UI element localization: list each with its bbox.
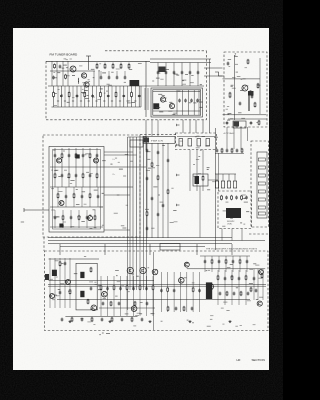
transistor Q6 [242, 85, 248, 91]
capacitor C6 [138, 94, 141, 98]
wire [104, 194, 130, 196]
wire [134, 86, 136, 107]
wire [218, 256, 220, 272]
resistor R53 [192, 287, 194, 293]
wire drop [221, 229, 223, 241]
wire [173, 63, 175, 87]
wire dashed box edge extension [140, 134, 176, 136]
wire [59, 258, 61, 308]
wire [89, 148, 91, 167]
wire [138, 86, 140, 107]
capacitor C48 [157, 151, 160, 155]
wire [239, 256, 241, 272]
wire [217, 270, 219, 305]
discriminator block [193, 174, 208, 186]
transistor Q15 [152, 269, 158, 275]
label speckle [53, 63, 141, 86]
resistor R40 [157, 175, 159, 181]
wire [160, 272, 162, 312]
wire [84, 86, 86, 107]
transistor Q23 [259, 270, 264, 275]
capacitor C78 [218, 260, 221, 264]
wire [167, 272, 169, 312]
regulator cell [258, 198, 265, 201]
wire [50, 226, 103, 228]
capacitor C32 [235, 196, 238, 200]
oscillator transformer (shielded) [248, 91, 254, 96]
wire [78, 210, 80, 228]
wire [228, 118, 267, 120]
node connector arrow [177, 174, 180, 176]
wire [73, 187, 75, 207]
capacitor C74 [247, 292, 250, 296]
resistor R68 [71, 317, 73, 322]
wire [103, 86, 105, 107]
wire drop [199, 186, 201, 238]
regulator cell [258, 182, 265, 185]
lead tick [95, 100, 97, 102]
capacitor C14 [165, 71, 168, 75]
regulator cell [258, 212, 265, 215]
wire [199, 272, 201, 312]
wire drop [226, 127, 228, 149]
transistor Q1 [70, 66, 76, 72]
resistor R6 [131, 91, 133, 97]
capacitor C27 [250, 121, 253, 125]
resistor R35 [89, 193, 91, 199]
wire [54, 148, 56, 167]
resistor R2 [68, 91, 70, 97]
ceramic filter [179, 139, 183, 147]
wire drop [56, 61, 58, 86]
wire [107, 86, 109, 107]
resistor R56 [245, 275, 247, 281]
transistor Q21 [257, 301, 262, 306]
capacitor C25 [227, 62, 230, 66]
connector J3 [233, 121, 246, 128]
ground [228, 320, 231, 323]
capacitor C53 [167, 159, 170, 163]
diode row [221, 181, 224, 188]
wire [88, 86, 90, 107]
ceramic filter [206, 139, 210, 147]
wire [223, 78, 260, 80]
node FM antenna input [86, 56, 91, 70]
capacitor C10 [108, 76, 111, 80]
wire drop [51, 61, 53, 86]
lead tick [57, 100, 59, 102]
regulator cell [258, 158, 265, 161]
capacitor C83 [101, 318, 104, 322]
wire [111, 86, 113, 107]
resistor R48 [113, 285, 115, 291]
wire drop [104, 244, 106, 255]
wire [222, 174, 224, 181]
wire [99, 307, 155, 309]
capacitor C1 [60, 94, 63, 98]
wire [173, 272, 175, 312]
wire [127, 86, 129, 107]
wire [153, 110, 200, 112]
resistor R33 [57, 193, 59, 199]
wire interboard [204, 67, 223, 69]
capacitor C13 [157, 71, 160, 75]
wire [232, 256, 234, 272]
capacitor C84 [121, 318, 124, 322]
wire drop [233, 127, 235, 149]
capacitor C37 [96, 154, 99, 158]
wire [131, 86, 133, 107]
wire [50, 166, 146, 168]
wire drop [151, 120, 153, 137]
resistor R26 [61, 153, 63, 159]
wire [253, 269, 255, 300]
capacitor C51 [157, 213, 160, 217]
lead tick [64, 100, 66, 102]
wire [120, 63, 122, 65]
resistor R31 [82, 173, 84, 179]
wire vertical run [139, 244, 141, 290]
wire [211, 256, 213, 272]
resistor R42 [167, 189, 169, 195]
wire [150, 62, 211, 64]
wire [69, 258, 71, 308]
wire [152, 276, 154, 316]
capacitor C30 [236, 149, 239, 153]
wire [100, 276, 102, 316]
resistor R38 [94, 215, 96, 221]
resistor R60 [250, 287, 252, 292]
wire [100, 71, 102, 77]
wire bus [60, 246, 205, 248]
capacitor C17 [189, 71, 192, 75]
resistor R44 [69, 289, 71, 295]
svg-text:2: 2 [235, 53, 237, 57]
wire vertical run [132, 137, 134, 244]
capacitor C43 [97, 195, 100, 199]
node connector arrow [177, 144, 180, 146]
ceramic filter [188, 139, 192, 147]
wire [92, 86, 94, 107]
wire [60, 86, 62, 107]
wire [120, 276, 122, 316]
resistor R49 [126, 285, 128, 291]
driver stage enclosure [76, 263, 97, 310]
wire drop [93, 71, 95, 86]
resistor R54 [217, 275, 219, 281]
wire [133, 276, 135, 316]
wire bus [57, 298, 250, 300]
wire drop [189, 150, 191, 192]
wire [224, 270, 226, 305]
svg-text:THE VOLTAGE APPLY EACH MEASURI: THE VOLTAGE APPLY EACH MEASURING POINTS [206, 248, 258, 251]
wire drop [231, 229, 233, 241]
wire [96, 63, 98, 65]
wire drop [202, 120, 204, 133]
capacitor C2 [76, 94, 79, 98]
wire [99, 86, 101, 107]
capacitor C41 [65, 195, 68, 199]
resistor R59 [134, 301, 136, 307]
capacitor C19 [178, 99, 181, 103]
wire [147, 88, 149, 110]
wire drop [59, 244, 61, 255]
wire drop [247, 127, 249, 141]
wire [193, 90, 195, 115]
wire [104, 154, 137, 156]
wire drop [195, 120, 197, 133]
wire [126, 276, 128, 316]
resistor R43 [59, 261, 61, 267]
capacitor C69 [118, 302, 121, 306]
capacitor C72 [219, 292, 222, 296]
output transformer 2 (shielded) [206, 282, 212, 299]
capacitor C23 [251, 95, 254, 99]
capacitor C52 [146, 227, 149, 231]
FM tuner board enclosure right edge (dashed) [206, 51, 208, 120]
wire [231, 270, 233, 305]
capacitor C29 [226, 149, 229, 153]
svg-text:SECTION: SECTION [252, 358, 265, 362]
capacitor C26 [226, 121, 229, 125]
wire [81, 187, 83, 207]
lead tick [88, 100, 90, 102]
resistor R12 [120, 63, 122, 69]
transistor Q4 [160, 97, 165, 102]
capacitor C59 [119, 287, 122, 291]
transistor Q14 [140, 267, 146, 273]
wire [68, 86, 70, 107]
capacitor C80 [246, 260, 249, 264]
resistor R23 [221, 195, 223, 201]
resistor R32 [96, 173, 98, 179]
terminal block [160, 244, 180, 251]
wire drop [202, 150, 204, 192]
resistor R45 [90, 267, 92, 273]
wire vertical run [127, 137, 129, 244]
wire vertical run [146, 137, 148, 244]
label speckle [193, 150, 215, 190]
wire vertical run [162, 143, 164, 238]
resistor R34 [73, 193, 75, 199]
wire [75, 148, 77, 167]
wire [107, 276, 109, 316]
capacitor C40 [89, 174, 92, 178]
wire [233, 55, 235, 120]
lead tick [80, 100, 82, 102]
IF amp block shield [144, 138, 150, 143]
transistor Q16 [102, 291, 108, 297]
transistor Q3 [84, 82, 89, 87]
resistor R69 [91, 317, 93, 322]
resistor R15 [257, 83, 259, 89]
label speckle [54, 89, 135, 106]
wire [176, 90, 178, 115]
wire [68, 167, 70, 187]
wire [186, 272, 188, 312]
wire [50, 186, 133, 188]
resistor R50 [139, 285, 141, 291]
ceramic filter [197, 139, 201, 147]
wire vertical run [146, 143, 148, 238]
wire antenna lead out [24, 209, 49, 211]
capacitor C73 [233, 292, 236, 296]
wire [64, 86, 66, 107]
capacitor C5 [123, 94, 126, 98]
resistor R14 [229, 92, 231, 98]
resistor R39 [151, 162, 153, 168]
capacitor C38 [61, 174, 64, 178]
resistor R51 [152, 285, 154, 291]
lead tick [111, 100, 113, 102]
regulator cell [258, 174, 265, 177]
transistor Q9 [59, 201, 64, 206]
wire [228, 174, 230, 181]
resistor R71 [131, 317, 133, 322]
resistor R46 [87, 299, 89, 305]
capacitor C85 [141, 318, 144, 322]
wire [97, 187, 99, 207]
IF transformer T3 (shielded) [76, 154, 80, 158]
crystal filter block [130, 140, 143, 147]
wire [116, 71, 118, 77]
resistor R30 [68, 173, 70, 179]
capacitor C3 [91, 94, 94, 98]
wire vertical run [218, 153, 220, 191]
resistor R61 [226, 291, 228, 296]
resistor R7 [54, 63, 56, 69]
label speckle [180, 136, 218, 149]
capacitor C54 [162, 204, 165, 208]
resistor R52 [167, 287, 169, 293]
capacitor C4 [107, 94, 110, 98]
lead tick [134, 100, 136, 102]
wire [182, 90, 184, 115]
transistor Q22 [184, 262, 189, 267]
wire [157, 63, 159, 87]
capacitor C44 [54, 216, 57, 220]
wire [54, 167, 56, 187]
wire [216, 174, 218, 181]
regulator cell [258, 166, 265, 169]
wire [177, 136, 215, 138]
wire [181, 63, 183, 87]
wire jog [215, 72, 224, 76]
resistor R66 [225, 259, 227, 264]
transistor Q8 [94, 158, 99, 163]
capacitor C68 [102, 302, 105, 306]
wire [223, 114, 267, 116]
connector J3 body [234, 122, 240, 127]
wire drop [62, 61, 64, 86]
resistor R18 [258, 120, 260, 126]
capacitor C76 [191, 307, 194, 311]
resistor R29 [54, 173, 56, 179]
capacitor C50 [151, 197, 154, 201]
output transformer (shielded) [52, 270, 57, 276]
wire [53, 86, 55, 107]
transistor Q2 [81, 73, 86, 78]
capacitor C20 [184, 99, 187, 103]
resistor R9 [96, 63, 98, 69]
capacitor C47 [146, 149, 149, 153]
svg-text:FM TUNER BOARD: FM TUNER BOARD [50, 53, 79, 57]
ground [68, 320, 71, 323]
wire [119, 86, 121, 107]
wire [64, 258, 66, 308]
transistor Q13 [127, 267, 133, 273]
capacitor C45 [70, 216, 73, 220]
lead tick [72, 100, 74, 102]
wire [49, 279, 155, 281]
wire [49, 258, 51, 308]
wire thick run [248, 92, 250, 111]
wire [104, 229, 130, 231]
lead tick [119, 100, 121, 102]
wire drop [98, 71, 100, 86]
label speckle [152, 69, 202, 85]
FM tuner board enclosure bottom edge (dashed) [46, 119, 207, 121]
MPX decoder enclosure (dashed) [218, 191, 252, 229]
diode row [227, 181, 230, 188]
wire [76, 86, 78, 107]
IF amplifier sub enclosure [49, 147, 104, 233]
resistor R28 [89, 153, 91, 159]
wire [123, 86, 125, 107]
regulator cell [258, 190, 265, 193]
wire vertical run [139, 137, 141, 244]
resistor R5 [115, 91, 117, 97]
HF amplifier board enclosure (dashed) [45, 251, 269, 331]
resistor R24 [231, 195, 233, 201]
capacitor C31 [225, 196, 228, 200]
capacitor C7 [59, 65, 62, 69]
capacitor C12 [124, 76, 127, 80]
inductor L1 [77, 78, 80, 83]
wire [94, 210, 96, 228]
wire [62, 210, 64, 228]
resistor R10 [104, 63, 106, 69]
capacitor C75 [175, 307, 178, 311]
wire [50, 70, 95, 72]
wire [104, 151, 133, 153]
wire shield top [46, 60, 150, 62]
wire vertical run [143, 244, 145, 290]
MPX transformer (shielded) [226, 208, 241, 218]
resistor R27 [75, 153, 77, 159]
diode row [233, 181, 236, 188]
wire [179, 272, 181, 312]
front-end sub enclosure [151, 88, 203, 117]
resistor R58 [110, 301, 112, 307]
capacitor C9 [100, 76, 103, 80]
resistor R19 [221, 148, 223, 153]
capacitor C56 [59, 291, 62, 295]
resistor R41 [146, 211, 148, 217]
wire vertical run [143, 137, 145, 244]
resistor R21 [241, 148, 243, 153]
resistor R57 [261, 273, 263, 279]
label speckle [51, 150, 106, 229]
svg-text:FM MPX: FM MPX [227, 221, 235, 223]
wire vertical run [132, 244, 134, 290]
wire [57, 187, 59, 207]
resistor R65 [211, 259, 213, 264]
wire [75, 167, 77, 187]
wire [96, 148, 98, 167]
wire [57, 86, 59, 107]
wire [68, 148, 70, 167]
